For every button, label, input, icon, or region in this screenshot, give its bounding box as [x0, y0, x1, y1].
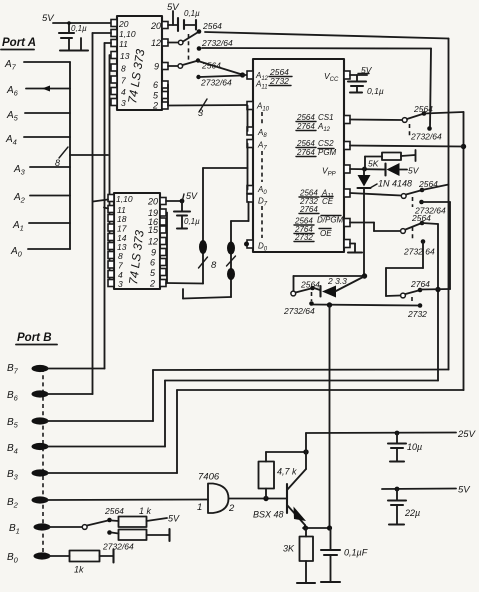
capacitor C1 0,1u	[59, 21, 88, 50]
wire Port A bus vertical	[69, 62, 71, 249]
svg-text:3: 3	[121, 98, 126, 108]
capacitor C6 22u	[388, 487, 420, 525]
switch S8 arm	[87, 521, 108, 526]
svg-text:22µ: 22µ	[404, 508, 420, 518]
wire S2 throw1 to A12 node	[198, 61, 242, 75]
wire V449 2564 column	[448, 39, 450, 370]
pin squares right U2	[160, 198, 166, 287]
svg-text:12: 12	[148, 237, 158, 247]
switch S1 common	[178, 40, 183, 45]
node S6 throw 2764	[418, 288, 423, 293]
wire V464 right column	[463, 112, 465, 390]
wire V231 data riser	[230, 221, 232, 297]
node A3	[13, 164, 26, 177]
svg-text:2732/64: 2732/64	[102, 542, 134, 552]
EPROM dashed A7-A0	[261, 151, 263, 182]
wire U2 pin1,10 stub to B6 column	[93, 200, 108, 202]
wire S2 throw2 to A12 node	[199, 76, 242, 78]
svg-text:0,1µ: 0,1µ	[184, 217, 200, 226]
wire V431 2732/64 column	[430, 49, 431, 128]
EPROM pin A12/A11 labels	[255, 67, 292, 91]
resistor R2 5K	[365, 150, 416, 169]
wire B4 staircase to V438	[47, 381, 438, 447]
svg-text:1N 4148: 1N 4148	[378, 179, 412, 189]
switch S7 dashed link	[311, 292, 313, 301]
svg-text:1: 1	[197, 502, 202, 513]
wire U2 pin20 to 5V	[166, 200, 182, 202]
EPROM pin A11/CE labels	[299, 189, 334, 215]
svg-text:1 k: 1 k	[139, 506, 152, 516]
pin squares right U1	[162, 22, 168, 110]
EPROM pin CS1 labels	[296, 113, 334, 133]
svg-text:15: 15	[148, 225, 159, 235]
svg-text:2564: 2564	[296, 113, 315, 122]
wire H298 under U2	[183, 289, 231, 299]
pin numbers U1 right	[150, 21, 161, 111]
svg-text:13: 13	[120, 51, 130, 61]
wire U1 pin1,10 row	[93, 32, 112, 34]
switch S2 arm	[183, 61, 197, 65]
switch S2 common	[178, 64, 183, 69]
svg-text:6: 6	[150, 258, 155, 268]
switch S3 dashed link	[409, 124, 411, 136]
wire U1 pin11 row	[105, 42, 112, 44]
svg-text:8: 8	[121, 64, 126, 74]
node junction 25V/R6	[303, 449, 308, 454]
capacitor C3 0,1u at U2	[174, 201, 200, 229]
svg-text:2564: 2564	[104, 506, 124, 516]
svg-text:2: 2	[149, 279, 155, 289]
wire S6 throw1 to V450	[420, 288, 450, 291]
svg-text:CS1: CS1	[318, 113, 334, 122]
wire A4 tick	[24, 136, 70, 138]
svg-text:2732/64: 2732/64	[283, 306, 315, 316]
svg-text:0,1µ: 0,1µ	[367, 86, 384, 96]
svg-text:1,10: 1,10	[116, 194, 133, 204]
svg-text:7: 7	[121, 76, 126, 86]
EPROM pin CS2 labels	[296, 139, 337, 157]
node junction emitter/V330	[327, 525, 332, 530]
node B4	[7, 443, 49, 456]
node junction base/R6	[263, 496, 268, 501]
svg-text:11: 11	[119, 39, 128, 49]
pin numbers U1 left	[118, 19, 136, 108]
svg-text:0,1µ: 0,1µ	[71, 24, 87, 33]
wire S5 throw1 to V438	[422, 223, 438, 224]
svg-text:4,7 k: 4,7 k	[277, 467, 297, 477]
svg-text:12: 12	[151, 38, 161, 48]
svg-text:5V: 5V	[186, 191, 198, 201]
wire CE pin to switch	[350, 193, 401, 196]
wire 5V to IC1 pin20	[53, 22, 111, 24]
svg-text:20: 20	[118, 19, 129, 29]
svg-text:17: 17	[117, 224, 127, 234]
switch S8 common	[82, 525, 87, 530]
node 1N4148 label	[370, 179, 412, 189]
svg-text:2732 64: 2732 64	[403, 247, 435, 257]
gate U4 body	[208, 484, 229, 514]
wire A5 tick	[25, 112, 70, 114]
wire A1 tick	[29, 222, 70, 224]
node junction A12 feed	[240, 72, 247, 77]
EPROM dashed D7-D0	[261, 206, 263, 238]
svg-text:4: 4	[121, 87, 126, 97]
node S1 throw 2732/64	[197, 46, 202, 51]
wire A7 tick	[24, 61, 70, 63]
capacitor C5 10u	[388, 431, 422, 462]
svg-text:7: 7	[118, 261, 123, 271]
wire 25V rail	[306, 432, 456, 435]
switch S4 dashed link	[412, 197, 414, 207]
wire V450	[449, 202, 451, 289]
svg-text:2 3.3: 2 3.3	[327, 276, 347, 286]
wire V438	[437, 224, 439, 381]
node Vpp junction	[362, 167, 367, 172]
svg-text:2: 2	[228, 503, 235, 514]
capacitor C4 0,1u at Vcc	[348, 75, 384, 96]
svg-text:18: 18	[117, 214, 127, 224]
node S1 throw 2564	[197, 29, 202, 34]
wire B1 to switch	[49, 526, 82, 528]
wire A0 tick	[28, 248, 70, 250]
node B3	[7, 469, 49, 482]
wire A3 tick	[30, 166, 70, 168]
resistor R5 1k	[49, 550, 114, 563]
node S7 throw 2564	[310, 286, 315, 291]
pin squares left U1	[111, 20, 117, 106]
svg-text:3: 3	[118, 279, 123, 289]
switch S5 arm	[406, 224, 421, 230]
wire S5 throw2 zigzag to S6 common	[386, 242, 423, 296]
svg-text:2564: 2564	[296, 139, 315, 148]
node S7 throw 2732/64	[309, 301, 314, 306]
node 5V at U1 pin20 right	[167, 2, 180, 13]
node A0	[10, 246, 23, 259]
wire A2 tick	[30, 195, 70, 197]
node junction emitter/3K	[303, 525, 308, 530]
switch S4 arm	[406, 191, 421, 195]
svg-text:2564: 2564	[300, 280, 320, 290]
switch S3 common	[402, 118, 407, 123]
wire U2 pin2 row	[166, 282, 203, 285]
svg-text:25V: 25V	[457, 429, 477, 440]
wire 2732 row to zener area	[312, 305, 420, 306]
wire B5 staircase to V449	[47, 370, 449, 422]
wire R6 top to 25V column	[266, 451, 306, 453]
svg-text:2764: 2764	[299, 205, 318, 214]
svg-text:5V: 5V	[458, 485, 471, 496]
diode D1 1N4148 to 5V	[386, 163, 420, 176]
svg-text:3: 3	[198, 108, 203, 118]
wire pin20 right to cap	[168, 11, 177, 25]
wire B2 to 7406 input	[47, 499, 208, 502]
switch S1 arm	[183, 33, 198, 42]
svg-text:0,1µF: 0,1µF	[344, 548, 368, 558]
wire CS2 to V464	[350, 146, 464, 147]
svg-text:2732/64: 2732/64	[410, 132, 442, 142]
node B0	[7, 552, 51, 565]
node S4 throw 2564	[420, 188, 425, 193]
node S4 throw 2732/64	[419, 200, 424, 205]
wire B3 staircase to V464	[47, 390, 464, 473]
node S6 throw 2732	[418, 303, 423, 308]
switch S7 arm	[296, 289, 312, 293]
slash 8 on V203	[199, 257, 218, 271]
wire pin9 to switch	[168, 65, 178, 67]
wire H1 2564 net to right column	[205, 32, 449, 39]
node junction V438/2764 row	[435, 287, 440, 292]
node A7	[4, 59, 17, 72]
wire S4 throw2 to V450	[422, 201, 451, 203]
wire Port B dashed connector line	[42, 368, 44, 556]
wire V330 down to emitter node	[329, 305, 331, 528]
latch U2 74LS373 body	[114, 193, 160, 289]
latch U1 label	[125, 48, 147, 105]
EPROM left pin squares	[247, 71, 253, 248]
wire 25V drop	[305, 433, 307, 452]
svg-text:2: 2	[152, 101, 158, 111]
node junction 2732 row / V330	[327, 302, 332, 307]
capacitor C7 0,1uF	[321, 528, 368, 582]
svg-text:9: 9	[154, 62, 159, 72]
node S3 throw 2732/64	[427, 126, 432, 131]
svg-text:2764: 2764	[410, 279, 430, 289]
wire OE pin to switch	[350, 223, 401, 232]
node S5 throw 2564	[420, 221, 425, 226]
svg-text:5K: 5K	[368, 159, 379, 169]
wire V203 A-bus riser	[202, 168, 204, 284]
svg-text:0,1µ: 0,1µ	[184, 9, 200, 18]
pin squares left U2	[108, 195, 114, 287]
wire pins 6-5-2 join	[167, 85, 169, 106]
wire Vpp pin	[350, 168, 385, 171]
svg-text:2564: 2564	[411, 213, 431, 223]
svg-text:20: 20	[147, 197, 158, 207]
resistor R6 4,7k	[259, 452, 275, 499]
svg-text:8: 8	[55, 158, 60, 168]
slash on V231	[227, 256, 236, 266]
node A1	[12, 220, 24, 233]
EPROM U3 body	[253, 59, 344, 252]
node A2	[13, 192, 26, 205]
svg-text:2732/64: 2732/64	[200, 78, 232, 88]
node S2 throw 2732/64	[196, 75, 200, 79]
svg-text:2564: 2564	[202, 21, 222, 31]
pin numbers U2 left	[116, 194, 133, 289]
switch S6 arm	[406, 291, 419, 295]
wire H168 to A7-A0 bracket	[203, 167, 248, 169]
wire S3 throw1 right to V464	[424, 112, 464, 114]
switch S6 dashed link	[411, 297, 413, 304]
svg-text:2732: 2732	[407, 309, 427, 319]
resistor R3 1k	[112, 517, 168, 528]
wire Vcc to 5V	[350, 65, 373, 75]
node A4	[5, 134, 17, 147]
node S2 throw 2564	[196, 58, 200, 62]
node S3 throw 2564	[422, 111, 427, 116]
wire B7	[47, 43, 105, 369]
svg-text:CS2: CS2	[318, 139, 334, 148]
svg-text:3K: 3K	[283, 544, 295, 554]
wire H2 2732/64 net to right column	[202, 47, 431, 50]
svg-text:6: 6	[153, 80, 158, 90]
wire U2 output bus join	[166, 213, 168, 284]
svg-text:2732/64: 2732/64	[201, 38, 233, 48]
wire 5V rail	[382, 488, 456, 491]
latch U2 label	[126, 229, 147, 285]
node S8 throw 2732/64	[107, 530, 112, 535]
svg-text:8: 8	[118, 251, 123, 261]
wire 7406 output to base	[229, 498, 288, 500]
switch S7 common	[291, 291, 296, 296]
capacitor C2 0,1u	[178, 9, 200, 31]
latch U1 74LS373 body	[117, 16, 162, 110]
svg-text:5V: 5V	[168, 514, 180, 524]
svg-text:D/PGM: D/PGM	[317, 216, 344, 225]
svg-text:1k: 1k	[74, 565, 84, 575]
switch S6 common	[401, 293, 406, 298]
node 5V	[42, 13, 55, 24]
EPROM pin OE labels	[294, 216, 344, 243]
ground at EPROM pin	[348, 244, 362, 253]
node B7	[7, 363, 49, 376]
wire A10-A8 bracket	[247, 106, 249, 132]
svg-text:2732: 2732	[269, 76, 289, 86]
node A5	[6, 110, 19, 123]
node S5 throw 2732,64	[421, 239, 426, 244]
wire A6 tick	[26, 86, 70, 92]
pin numbers U2 right	[147, 197, 159, 289]
node Port A title	[1, 37, 36, 50]
wire U2 pin11 stub to B7 column	[104, 208, 108, 209]
node junction CS2/V464	[461, 144, 466, 149]
node Port B title	[16, 332, 57, 345]
svg-text:2764: 2764	[296, 122, 315, 131]
connector jack blob upper on V231	[227, 242, 235, 255]
svg-text:9: 9	[151, 248, 156, 258]
wire IC input bus vertical	[109, 55, 111, 283]
svg-text:Port A: Port A	[2, 37, 36, 49]
svg-text:5V: 5V	[408, 166, 420, 176]
connector jack blob on V203	[199, 240, 207, 254]
EPROM right pin squares	[344, 71, 350, 248]
svg-text:OE: OE	[320, 229, 332, 238]
wire Vpp line to switch	[294, 273, 368, 291]
svg-text:PGM: PGM	[318, 148, 337, 157]
svg-text:1,10: 1,10	[119, 29, 136, 39]
svg-text:2764: 2764	[296, 148, 315, 157]
wire S4 throw1 to V449	[422, 185, 449, 191]
resistor R7 3k	[297, 528, 315, 583]
svg-text:8: 8	[211, 260, 217, 271]
svg-text:2732: 2732	[294, 233, 313, 242]
svg-text:BSX 48: BSX 48	[253, 510, 284, 520]
node A6	[6, 85, 19, 98]
wire pin12 to switch	[168, 42, 179, 44]
node B2	[7, 496, 49, 509]
switch S5 dashed link	[412, 227, 414, 239]
node D0 junction	[244, 242, 249, 247]
diode D2 vertical	[358, 169, 371, 276]
node 5V at U2	[180, 191, 198, 203]
node B1	[9, 523, 51, 536]
switch S3 arm	[407, 114, 423, 119]
transistor Q1 BSX48	[287, 452, 306, 528]
svg-text:20: 20	[150, 21, 161, 31]
svg-text:10µ: 10µ	[407, 442, 422, 452]
wire emitter node	[303, 527, 331, 529]
wire A7-A0 bracket	[247, 144, 249, 190]
connector jack blob lower on V231	[227, 268, 235, 280]
wire A bus horizontal with slash 8	[55, 147, 108, 168]
node S8 throw 2564	[107, 518, 112, 523]
switch S5 common	[401, 229, 406, 234]
wire H221 to D7	[231, 202, 249, 221]
svg-text:Port B: Port B	[17, 332, 52, 344]
switch S4 common	[401, 194, 406, 199]
wire B6	[47, 33, 93, 394]
node B6	[7, 390, 49, 403]
diode D3 zener Z3.3	[314, 276, 364, 298]
switch S1 dashed link	[188, 34, 190, 61]
EPROM dashed A10-A8	[261, 112, 263, 126]
resistor R4 1k	[112, 529, 170, 541]
svg-text:CE: CE	[322, 197, 334, 206]
wire 3-bus from pin2 to EPROM A10 with slash 3	[168, 99, 247, 118]
wire CS1 pin to switch	[350, 119, 402, 122]
node B5	[7, 417, 49, 430]
svg-text:7406: 7406	[198, 472, 220, 483]
